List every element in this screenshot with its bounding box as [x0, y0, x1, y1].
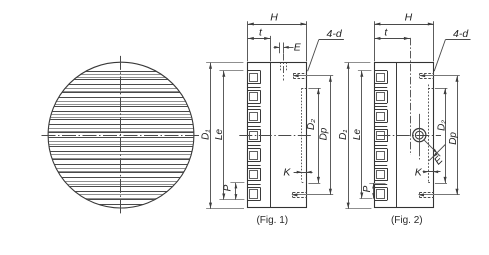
svg-text:D₁: D₁ [200, 130, 211, 140]
svg-text:P: P [223, 184, 234, 191]
svg-text:(Fig. 2): (Fig. 2) [391, 215, 423, 226]
svg-text:E: E [294, 42, 302, 54]
svg-text:(Fig. 1): (Fig. 1) [256, 215, 288, 226]
svg-text:D₂: D₂ [306, 119, 317, 130]
svg-text:H: H [270, 11, 278, 23]
svg-text:K: K [283, 166, 291, 178]
svg-text:H: H [405, 11, 413, 23]
svg-text:Le: Le [214, 129, 225, 141]
svg-text:Dp: Dp [448, 132, 459, 145]
svg-text:D₁: D₁ [338, 130, 349, 140]
svg-text:Dp: Dp [319, 127, 330, 140]
svg-text:K: K [415, 166, 423, 178]
svg-text:4-d: 4-d [327, 28, 343, 40]
svg-text:Le: Le [352, 129, 363, 141]
svg-text:P: P [362, 185, 373, 192]
svg-text:4-d: 4-d [453, 28, 469, 40]
svg-text:D₂: D₂ [437, 120, 448, 131]
